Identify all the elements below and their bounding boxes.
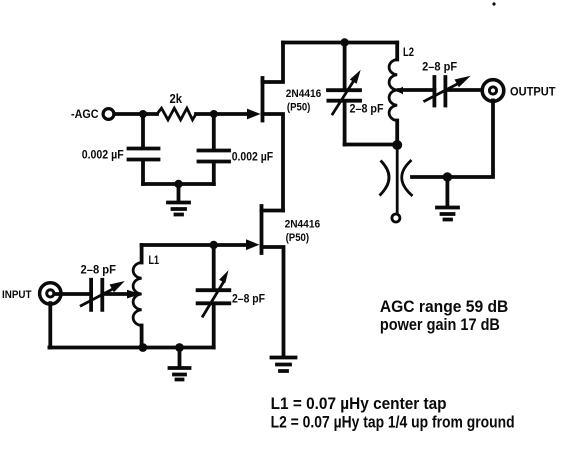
ground G3 (output): [437, 177, 458, 220]
inductor L1: [140, 245, 144, 263]
svg-text:0.002 µF: 0.002 µF: [232, 150, 274, 164]
variable capacitor C6 plates: [91, 280, 102, 310]
node B (AGC junction 2): [210, 110, 218, 118]
wire OUTPUT down to ground rail: [412, 100, 493, 177]
capacitor C1 bottom leg: [141, 162, 145, 185]
wire tank bottom to terminal: [396, 145, 399, 214]
variable capacitor C7 bottom leg: [212, 305, 216, 348]
transistor Q2 channel bar: [260, 206, 264, 253]
capacitor C5 feed-through right arc: [402, 161, 412, 195]
wire top rail drain to tank: [283, 41, 397, 45]
svg-text:(P50): (P50): [286, 232, 310, 244]
svg-text:L2: L2: [403, 45, 414, 59]
wire L1 top rail to gate Q2: [142, 243, 248, 247]
transistor Q1 channel bar: [261, 78, 265, 121]
svg-text:AGC range 59 dB: AGC range 59 dB: [380, 298, 508, 316]
inductor L1 tap arrow: [127, 290, 141, 299]
wire cap to L1 tap: [102, 292, 128, 296]
node E (tank bottom junction): [392, 140, 402, 150]
wire tank bottom rail: [345, 143, 398, 147]
variable capacitor C7 plates: [198, 290, 230, 303]
variable capacitor C3 plates: [328, 90, 360, 101]
variable capacitor C7 top leg: [212, 245, 216, 288]
transistor Q2 drain lead: [262, 209, 284, 213]
variable capacitor C4 arrow: [425, 84, 458, 101]
terminal INPUT: [40, 283, 61, 304]
speck artifact: [492, 2, 495, 5]
svg-text:2N4416: 2N4416: [285, 219, 321, 231]
inductor L2: [395, 43, 399, 60]
node G (L1 top junction): [210, 241, 218, 249]
transistor Q1 2N4416 gate arrow: [247, 109, 261, 120]
svg-text:(P50): (P50): [287, 102, 311, 114]
transistor Q2 source lead: [262, 247, 284, 355]
variable capacitor C3 bottom leg: [343, 103, 347, 145]
node D (top rail junction): [340, 38, 348, 46]
ground G1 (AGC filter): [168, 184, 189, 215]
wire resistor to gate Q1: [196, 112, 249, 116]
node I (input ground junction): [175, 343, 184, 352]
svg-text:OUTPUT: OUTPUT: [510, 85, 556, 99]
capacitor C5 feed-through left arc: [381, 162, 390, 195]
capacitor C1 0.002uF left plate leg: [141, 114, 145, 147]
svg-text:2–8 pF: 2–8 pF: [232, 292, 265, 306]
terminal AGC input: [103, 109, 114, 120]
svg-text:2k: 2k: [170, 91, 183, 106]
svg-text:2–8 pF: 2–8 pF: [350, 102, 384, 116]
svg-text:L1 = 0.07 µHy center tap: L1 = 0.07 µHy center tap: [271, 395, 447, 413]
transistor Q1 source lead: [263, 114, 284, 211]
capacitor C2 plates: [199, 151, 230, 162]
node A (AGC junction 1): [139, 110, 147, 118]
variable capacitor C3 top leg: [343, 43, 347, 89]
capacitor C2 bottom leg: [212, 164, 216, 185]
transistor Q1 drain lead: [263, 43, 284, 83]
svg-text:INPUT: INPUT: [2, 289, 32, 301]
variable capacitor C7 arrow: [203, 283, 223, 316]
node C (filter ground junction): [174, 180, 182, 188]
ground G4 (input tank): [170, 348, 190, 380]
capacitor C2 0.002uF top leg: [212, 114, 216, 149]
svg-text:power gain 17 dB: power gain 17 dB: [380, 316, 500, 334]
resistor R1 2k: [157, 108, 196, 120]
inductor L2 tap arrow: [395, 87, 403, 95]
transistor Q2 2N4416 gate arrow: [246, 239, 260, 250]
svg-text:-AGC: -AGC: [71, 107, 99, 121]
node H (L1 bottom junction): [139, 343, 148, 352]
terminal OUTPUT: [482, 80, 504, 102]
wire L1 bottom rail: [49, 346, 213, 350]
svg-text:2N4416: 2N4416: [286, 88, 322, 100]
variable capacitor C6 arrow: [81, 289, 113, 306]
wire cap to OUTPUT terminal: [445, 88, 482, 92]
wire INPUT down leg: [48, 303, 52, 347]
wire AGC to resistor: [115, 112, 158, 116]
svg-text:2–8 pF: 2–8 pF: [422, 60, 457, 74]
variable capacitor C4 plates: [434, 77, 445, 106]
terminal tap (open circle): [392, 214, 400, 222]
capacitor C1 plates: [129, 149, 159, 160]
node F (output ground junction): [443, 172, 452, 181]
variable capacitor C3 arrow: [333, 80, 355, 114]
ground G2 (Q2 source): [272, 358, 296, 372]
wire L2 tap to output cap: [399, 88, 434, 92]
svg-text:2–8 pF: 2–8 pF: [81, 263, 117, 277]
svg-text:L2 = 0.07 µHy tap 1/4 up from: L2 = 0.07 µHy tap 1/4 up from ground: [271, 414, 515, 432]
svg-text:0.002 µF: 0.002 µF: [82, 148, 124, 162]
svg-text:L1: L1: [149, 253, 160, 267]
wire cap bottom rail: [143, 182, 214, 186]
